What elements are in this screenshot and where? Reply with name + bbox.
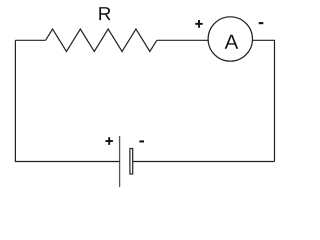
battery plus polarity label (106, 137, 113, 145)
battery positive plate (long) (119, 136, 121, 187)
battery negative plate (short) (130, 149, 133, 175)
wire bottom-right segment (133, 161, 275, 163)
ammeter A1 (208, 17, 252, 61)
wire top-left segment (15, 39, 45, 41)
ammeter minus polarity label (259, 22, 264, 24)
battery minus polarity label (139, 140, 144, 142)
ammeter letter A (225, 35, 239, 49)
wire between resistor and ammeter (157, 39, 209, 41)
resistor R (46, 29, 157, 52)
wire top-right and right side (253, 40, 275, 161)
wire bottom-left and left side (15, 40, 119, 161)
ammeter plus polarity label (195, 20, 202, 28)
label R (99, 7, 110, 20)
